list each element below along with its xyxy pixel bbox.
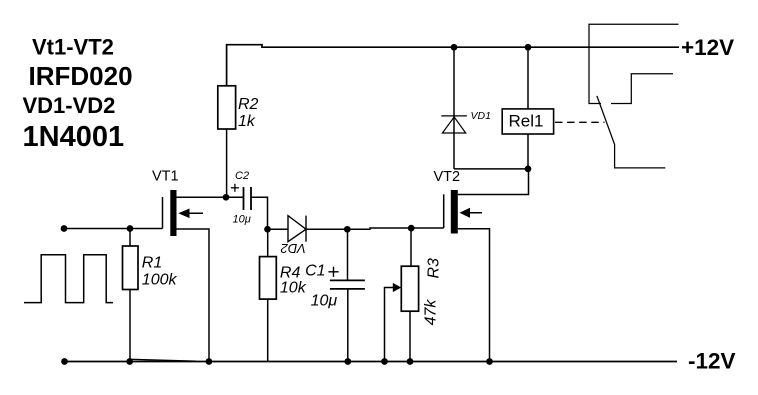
svg-text:Vt1-VT2: Vt1-VT2 [32,34,114,59]
relay coil Rel1 [502,109,553,134]
wire R1 bottom lead [129,290,131,362]
svg-text:47k: 47k [423,299,440,326]
wire VD1 to Rel1 bottom [454,168,528,170]
potentiometer R3 wiper arrow [385,288,394,362]
wire -12V rail [65,361,678,363]
wire input gate line [64,228,163,230]
dashed mechanical link Rel1 to contact [555,121,605,123]
svg-text:IRFD020: IRFD020 [29,61,133,91]
transistor VT1 channel bar [170,190,176,236]
resistor R2 [218,86,236,129]
potentiometer R3 [401,266,418,311]
wire rail double-draw artifact [131,359,196,361]
junction Rel1 top node [525,44,532,51]
resistor R1 [123,246,139,290]
svg-text:R1: R1 [142,255,162,272]
capacitor C1 [330,280,365,289]
wire VT1 drain lead [177,196,227,198]
junction VD2 cathode / C1 node [344,226,351,233]
svg-text:1k: 1k [238,113,256,130]
label C1 polarity plus [328,267,338,277]
diode VD2 [288,216,306,242]
junction VD1 top node [451,44,458,51]
transistor VT2 substrate arrow [462,212,482,214]
wire R3 bottom lead [409,311,411,361]
junction R1 top node [127,225,134,232]
wire Rel1 top lead [527,47,529,109]
signal source square wave [24,255,113,303]
junction R3 wiper bottom [381,358,388,365]
relay contact fixed terminal top [589,24,679,103]
svg-text:R2: R2 [238,96,259,113]
svg-text:100k: 100k [142,271,178,288]
wire node line VD2 cathode to VT2 gate [306,228,444,229]
wire Rel1 bottom lead [527,134,529,169]
svg-text:VT2: VT2 [434,169,461,185]
svg-text:C2: C2 [235,170,249,182]
svg-text:Rel1: Rel1 [509,112,544,131]
junction VT1 source bottom [206,358,213,365]
junction input terminal [61,225,68,232]
junction R3 top node [408,225,415,232]
wire R4 bottom lead [267,299,269,361]
wire R1 top lead [129,229,131,247]
svg-text:10μ: 10μ [233,214,251,226]
wire node line to VD2 [268,228,289,230]
svg-text:1N4001: 1N4001 [23,121,125,153]
svg-text:VT1: VT1 [152,169,179,185]
transistor VT2 gate electrode [443,194,445,228]
svg-text:-12V: -12V [688,349,736,374]
wire C2 right lead [251,197,268,229]
wire +12V rail [227,45,679,86]
svg-text:C1: C1 [305,262,325,279]
junction R1 bottom [126,358,133,365]
wire VT1 source lead [177,229,210,362]
capacitor C2 [244,187,252,210]
junction Rel1 bottom node [525,166,532,173]
wire C1 bottom lead [347,289,349,362]
svg-text:10μ: 10μ [311,293,338,310]
svg-text:VD2: VD2 [280,241,306,256]
junction C2 / R4 / VD2 anode node [264,226,271,233]
svg-text:VD1-VD2: VD1-VD2 [23,93,116,118]
label C2 polarity plus [231,184,239,192]
svg-text:+12V: +12V [681,35,734,60]
wire VD1 bottom lead [453,116,455,169]
diode VD1 [441,116,467,133]
junction VT1 drain / R2 / C2 node [223,194,230,201]
wire VD1 top lead [453,47,455,116]
wire C1 top lead [347,229,349,280]
wire VT2 source lead [458,229,490,362]
transistor VT1 substrate arrow [181,212,203,214]
junction rail left end [61,358,68,365]
transistor VT2 channel bar [451,190,458,234]
relay contact fixed terminal middle [611,74,673,104]
svg-text:R3: R3 [425,258,442,279]
wire R4 top lead [267,229,269,256]
junction VT2 source bottom [486,358,493,365]
junction C1 bottom [344,358,351,365]
junction R3 bottom [407,358,414,365]
wire VT2 drain lead [458,169,529,195]
svg-text:VD1: VD1 [471,110,491,122]
wire R2 bottom lead [226,129,228,197]
transistor VT1 gate electrode [162,197,164,229]
resistor R4 [260,257,277,300]
wire R3 top lead [410,228,412,266]
svg-text:10k: 10k [280,280,307,297]
wire C2 left lead [226,196,244,198]
relay contact moving armature [597,96,665,168]
